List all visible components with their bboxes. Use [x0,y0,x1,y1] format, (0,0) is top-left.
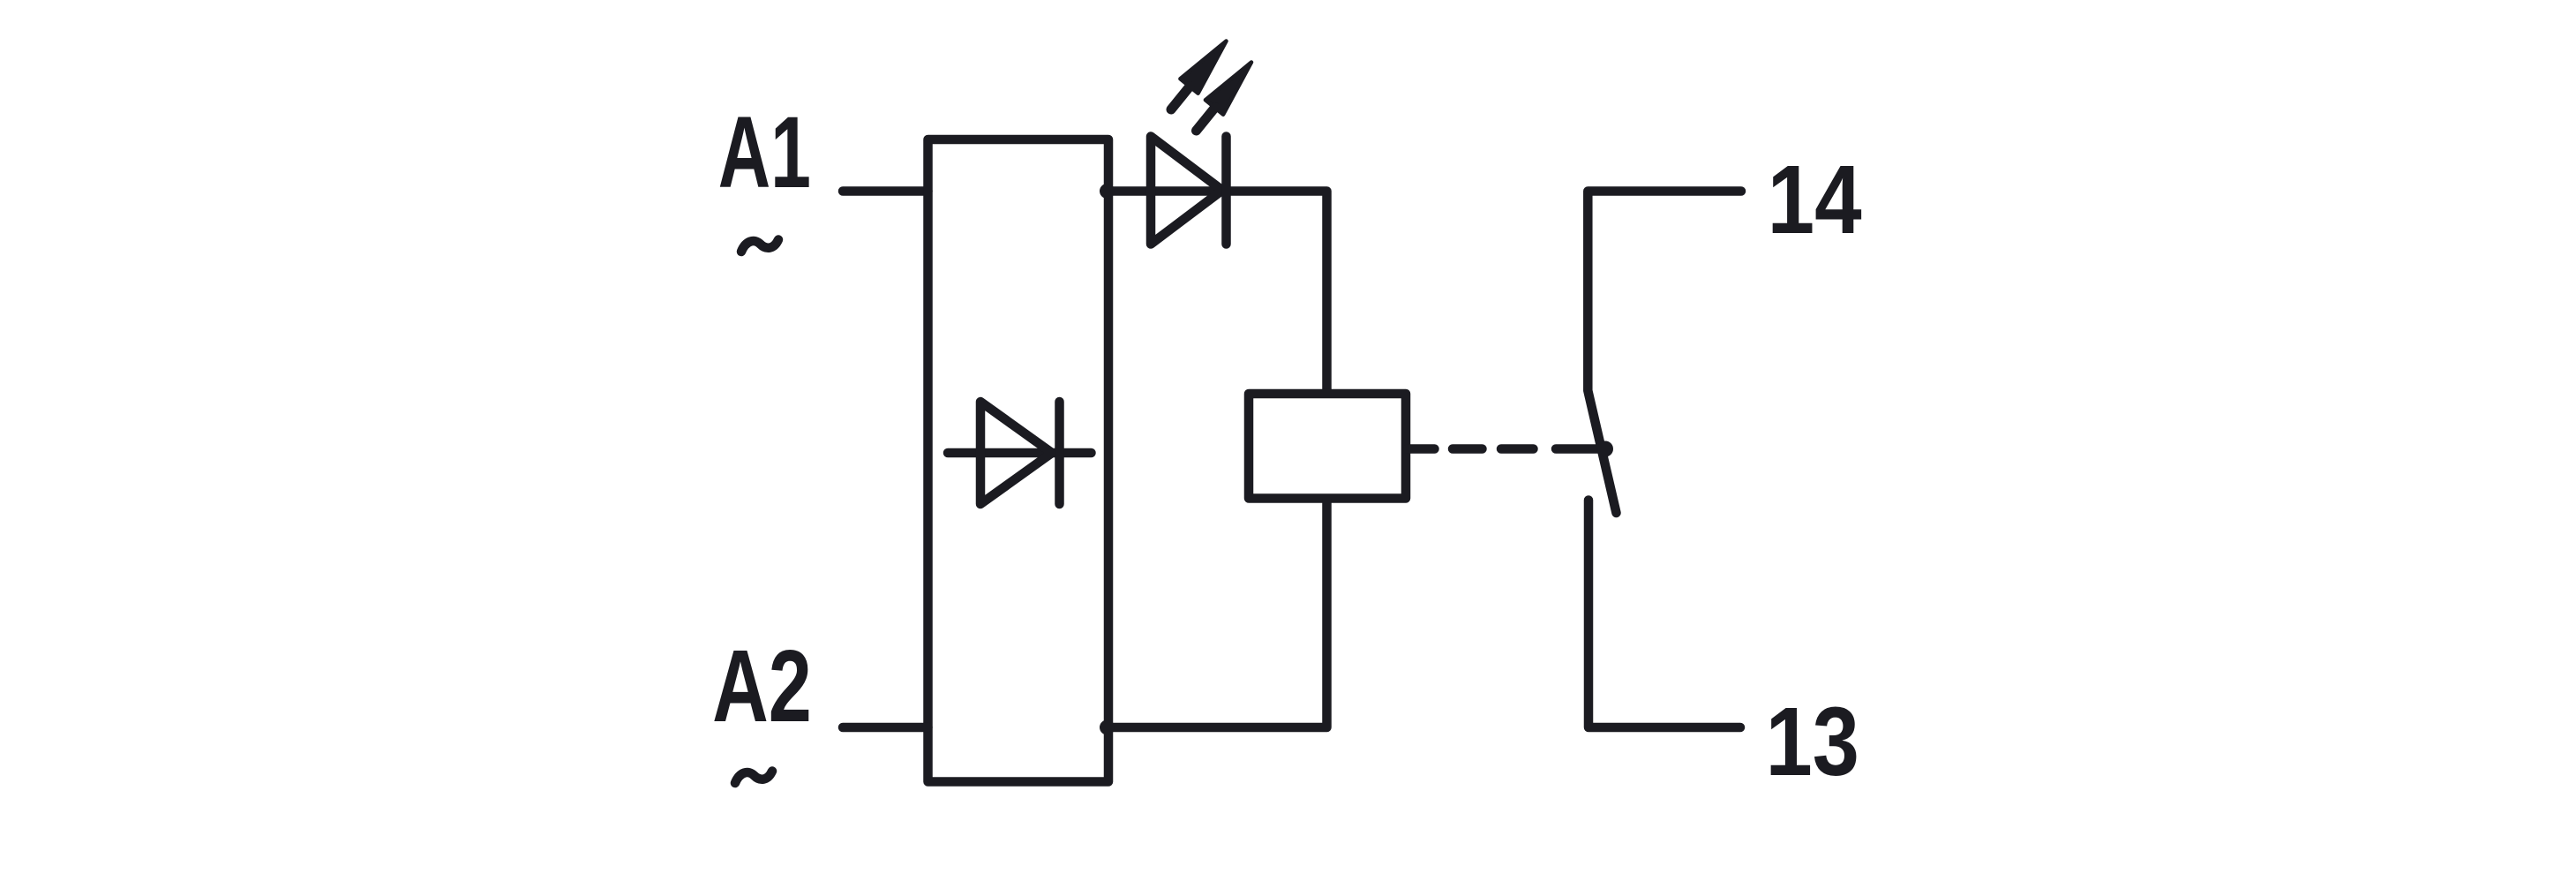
contact terminal 14 wire and moving blade [1588,192,1741,514]
LED arrow 2 head [1205,63,1251,115]
LED arrow 1 head [1180,41,1226,94]
relay coil K1 box [1249,394,1406,499]
mechanical link dash 2 [1453,444,1483,454]
mechanical link dash 4 [1556,444,1603,454]
LED D2 cathode bar [1221,137,1231,245]
mechanical link dash 1 [1408,444,1435,454]
mechanical link dash 3 [1501,444,1534,454]
svg-text:A1: A1 [718,96,811,210]
AC symbol under A1 [741,240,778,252]
junction node at block right edge bottom [1100,720,1115,735]
diode D1 triangle [980,402,1052,504]
wire A2 to rectifier block [843,723,928,733]
wire A1 to rectifier block [843,186,928,196]
LED D2 triangle [1151,137,1222,245]
wire block to LED and down to coil [1108,192,1327,395]
LED arrow 2 tail [1197,108,1216,132]
svg-text:14: 14 [1768,145,1862,254]
junction node blade and link [1597,441,1613,457]
rectifier block outline [928,139,1109,782]
diode D1 cathode bar [1055,402,1064,504]
wire coil bottom to block right edge [1108,499,1327,728]
contact terminal 13 wire [1588,501,1740,728]
junction node at block right edge top [1100,184,1115,199]
svg-text:A2: A2 [712,629,812,742]
AC symbol under A2 [735,772,772,784]
svg-text:13: 13 [1766,687,1859,795]
LED arrow 1 tail [1171,87,1190,110]
diode D1 lead [948,448,1092,458]
